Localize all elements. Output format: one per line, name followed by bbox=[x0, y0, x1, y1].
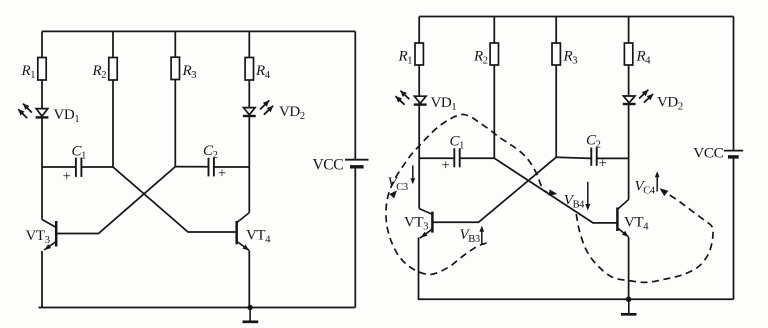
wire: battery bottom lead (right) bbox=[733, 157, 735, 299]
LED VD2 bbox=[244, 108, 256, 115]
svg-text:VCC: VCC bbox=[313, 157, 344, 174]
wire: left circuit bottom rail bbox=[39, 307, 356, 309]
svg-text:+: + bbox=[63, 169, 71, 185]
resistor R2 bbox=[109, 58, 117, 81]
battery VCC negative plate (right) bbox=[728, 155, 739, 158]
wire: VD1 column to C1 left plate bbox=[42, 166, 75, 168]
wire: VD1 column to C1 plate (right) bbox=[419, 157, 453, 159]
capacitor C1 (right) bbox=[453, 148, 455, 167]
wire: C1 plate to R2 junction (right) bbox=[460, 157, 495, 159]
resistor R2 (right) bbox=[490, 43, 498, 65]
wire: R4/VD2/VT4 column vertical bbox=[248, 31, 250, 212]
wire: battery bottom lead bbox=[354, 167, 356, 308]
wire: right circuit top rail bbox=[419, 16, 733, 18]
junction dot at emitter/ground node bbox=[247, 305, 252, 310]
wire: C2 right plate to VD2 column bbox=[214, 166, 249, 168]
LED VD1 bbox=[36, 109, 48, 117]
wire: right R1/VD1/VT3 column vertical bbox=[418, 17, 420, 209]
wire: diagonal R2 junction to VT4 base bbox=[113, 167, 236, 232]
battery VCC negative plate bbox=[350, 165, 364, 168]
wire: R2 column vertical bbox=[112, 31, 114, 167]
wire: diagonal R3 junction to VT3 base bbox=[57, 167, 175, 234]
ground (right) bbox=[628, 299, 630, 313]
resistor R4 (right) bbox=[624, 43, 632, 65]
wire: diagonal R3 junction to VT3 base (right) bbox=[433, 157, 556, 222]
wire: right R3 column vertical bbox=[555, 17, 557, 158]
dashed arrow toward VC4 bbox=[660, 188, 669, 196]
battery VCC positive plate (right) bbox=[724, 150, 743, 152]
capacitor C2 (right) bbox=[590, 148, 592, 166]
wire: C1 right plate to R2 junction bbox=[81, 166, 113, 168]
wire: battery top lead (right) bbox=[733, 17, 735, 151]
svg-text:VCC: VCC bbox=[693, 145, 723, 162]
transistor VT4 bbox=[235, 221, 238, 244]
transistor VT3 bbox=[55, 221, 58, 247]
dashed current path: charge loop left bbox=[386, 114, 548, 274]
wire: right circuit bottom rail bbox=[418, 298, 734, 300]
svg-text:+: + bbox=[442, 158, 450, 174]
capacitor C1 bbox=[75, 158, 77, 177]
dashed arrow toward VB4 bbox=[549, 189, 558, 195]
wire: right R2 column vertical bbox=[493, 17, 495, 159]
resistor R1 (right) bbox=[415, 43, 423, 65]
resistor R1 bbox=[38, 58, 46, 81]
transistor VT3 (right) bbox=[431, 212, 434, 233]
resistor R3 (right) bbox=[552, 43, 560, 65]
wire: right R4/VD2/VT4 column vertical bbox=[628, 17, 630, 200]
svg-text:+: + bbox=[218, 166, 226, 182]
ground bbox=[249, 308, 251, 322]
junction dot at ground node (right) bbox=[626, 297, 632, 303]
wire: R1/VD1/VT3 column vertical bbox=[41, 31, 43, 219]
LED VD2 (right) bbox=[623, 96, 635, 103]
wire: R3 junction to C2 left plate bbox=[175, 166, 207, 168]
transistor VT4 (right) bbox=[616, 208, 619, 232]
wire: battery top lead bbox=[354, 31, 356, 159]
wire: R3 column vertical bbox=[174, 31, 176, 166]
resistor R4 bbox=[245, 58, 253, 81]
resistor R3 bbox=[171, 57, 179, 79]
wire: left circuit top rail bbox=[42, 30, 355, 32]
battery VCC positive plate bbox=[345, 159, 369, 161]
wire: R3 junction to C2 plate (right) bbox=[556, 157, 590, 158]
dashed arrow up near VC3 bbox=[389, 190, 397, 198]
capacitor C2 bbox=[208, 158, 210, 177]
LED VD1 (right) bbox=[414, 96, 426, 103]
dashed current path: loop around VT4 bbox=[576, 195, 713, 283]
wire: diagonal R2 junction to VT4 base (right) bbox=[494, 158, 616, 223]
wire: C2 plate to VD2 column (right) bbox=[597, 157, 629, 159]
